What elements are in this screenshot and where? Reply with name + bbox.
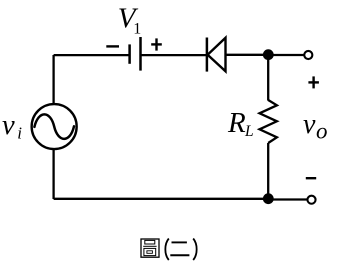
source vi circle [32, 104, 77, 149]
caption open paren [165, 239, 168, 261]
svg-text:R: R [227, 107, 246, 139]
label minus output [306, 177, 316, 179]
svg-text:v: v [303, 109, 316, 140]
svg-text:L: L [244, 123, 254, 140]
node B junction dot bottom [263, 193, 274, 204]
label V1 [118, 2, 141, 37]
wire diode to node A [226, 54, 269, 56]
label RL [227, 107, 254, 140]
wire node B to bottom terminal [268, 198, 307, 200]
wire bottom rail [54, 198, 268, 200]
svg-text:i: i [17, 124, 22, 143]
wire top rail left segment [54, 54, 130, 56]
diode D1 cathode bar [206, 38, 209, 72]
caption glyph tu (picture) outer box [141, 239, 159, 257]
wire battery to diode [141, 54, 207, 56]
battery V1 short plate (negative) [128, 44, 131, 63]
diode D1 triangle [208, 38, 226, 72]
terminal top open circle [304, 51, 312, 59]
wire left branch upper [52, 55, 54, 105]
battery plus sign [151, 38, 162, 50]
battery V1 long plate (positive) [139, 37, 142, 71]
battery minus sign [106, 45, 119, 47]
terminal bottom open circle [307, 196, 315, 204]
wire resistor to node B [267, 143, 269, 199]
svg-text:v: v [2, 110, 15, 141]
wire node A down to resistor [267, 55, 269, 101]
label vi [2, 110, 22, 143]
wire node A to terminal [268, 54, 304, 56]
source vi sine wave [34, 114, 74, 139]
caption glyph er (two) [170, 242, 189, 255]
svg-text:1: 1 [133, 21, 141, 38]
wire left branch lower [52, 149, 54, 199]
caption close paren [193, 239, 196, 261]
label plus output [308, 76, 319, 88]
node A junction dot top [263, 49, 274, 60]
label vo [303, 109, 328, 143]
svg-text:o: o [316, 118, 328, 143]
resistor RL zigzag [260, 100, 277, 143]
